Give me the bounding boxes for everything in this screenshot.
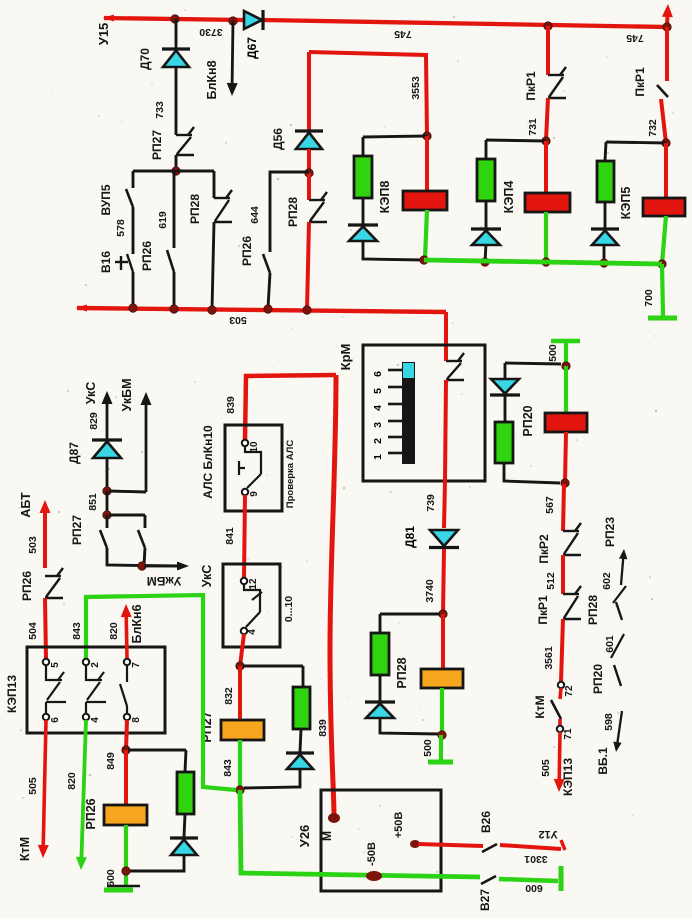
contact РП28 blade (chain) <box>616 602 622 620</box>
wire 733 <box>175 67 178 135</box>
svg-text:601: 601 <box>604 635 616 653</box>
arrow left end of bus 503 <box>76 305 87 312</box>
diode VD-РП28 <box>365 702 395 718</box>
terminal М (У26) <box>328 813 340 823</box>
svg-text:Д70: Д70 <box>138 48 152 70</box>
wire VD-РП20 to R-РП20 <box>504 396 507 422</box>
junction top bus / Д70 branch <box>171 15 179 23</box>
wire РП28 to bus 503 <box>212 222 214 310</box>
svg-text:РП26: РП26 <box>84 798 98 829</box>
wire 500 bar to node <box>564 341 568 364</box>
svg-text:БлКн8: БлКн8 <box>205 60 219 99</box>
svg-text:РП26: РП26 <box>20 571 34 601</box>
node Д56 / РП28 / РП26 junction <box>305 169 313 177</box>
resistor R-РП28 <box>371 633 389 675</box>
wire 3301 <box>500 845 561 849</box>
svg-text:ВУП5: ВУП5 <box>99 184 113 215</box>
svg-text:700: 700 <box>643 289 655 307</box>
svg-text:РП26: РП26 <box>140 241 154 271</box>
wire 500 to ground <box>439 735 443 760</box>
node green bus / VD-КЭП4 <box>481 258 489 266</box>
resistor R-РП27 <box>293 687 310 729</box>
wire top bus 745 left segment <box>104 18 243 20</box>
wire КЭП4 resistor tap <box>486 140 546 141</box>
wire 3740 <box>443 549 444 614</box>
wire Д56 to node <box>307 149 311 173</box>
wire VD-РП26 to node 600 <box>130 855 184 871</box>
svg-text:512: 512 <box>545 572 557 590</box>
wire Д87 to node 851 <box>106 458 109 491</box>
node 733/619 junction <box>172 167 180 175</box>
wire green return bus <box>424 260 662 264</box>
wire РП20 diode tap <box>505 363 561 364</box>
svg-text:КтМ: КтМ <box>533 695 547 718</box>
contact РП28 (x214) <box>214 190 232 222</box>
wire to R-КЭП4 <box>485 140 488 159</box>
contact РП27 blade (right) <box>138 530 145 548</box>
diode Д81 <box>403 526 459 548</box>
svg-text:РП20: РП20 <box>521 405 535 436</box>
wire КЭП8 coil feed (red) <box>425 136 429 191</box>
resistor R-КЭП5 <box>597 161 614 202</box>
contact РП26 blade (644 line) <box>263 254 270 273</box>
wire R-КЭП5 to diode <box>604 202 607 228</box>
svg-text:500: 500 <box>422 739 434 757</box>
svg-text:ПкР1: ПкР1 <box>633 67 647 97</box>
contact РП27 blade (left) <box>100 530 107 548</box>
svg-text:832: 832 <box>223 687 235 705</box>
svg-text:РП20: РП20 <box>591 664 605 694</box>
arrow to УжБМ (right) <box>144 562 189 571</box>
wire VD-РП28 to node 500 <box>380 717 440 734</box>
diode Д56 <box>271 128 323 150</box>
wire РП27 to node <box>175 155 178 171</box>
wire РП27 coil to node 843 <box>238 740 242 788</box>
node 732 / КЭП5 junction <box>662 139 670 147</box>
wire РП28 coil feed (red) <box>441 614 445 669</box>
terminal +50В (У26) <box>410 840 420 848</box>
wire 3553 <box>309 52 427 136</box>
wire 839 corner <box>245 375 336 440</box>
svg-text:В26: В26 <box>479 811 493 833</box>
terminal 12 (УкС) <box>241 578 247 584</box>
arrow net 820 to БлКн6 (up) <box>121 604 132 658</box>
КрМ position tick 1 <box>388 452 402 455</box>
block КЭП13 <box>27 647 165 733</box>
terminal bar net 600 end <box>559 866 564 891</box>
svg-text:4: 4 <box>90 717 101 723</box>
wire 745 to ПкР1 <box>546 26 550 75</box>
terminal 2 (КЭП13) <box>83 659 89 665</box>
svg-text:+50В: +50В <box>393 812 405 839</box>
wire node to РП28 contact (red) <box>307 173 311 200</box>
terminal bar net 500 (top) <box>551 339 580 344</box>
block АЛС БлКн10 <box>225 425 282 511</box>
contact В27 blade <box>481 876 496 884</box>
wire to R-РП28 <box>379 614 382 633</box>
node green bus / VD-КЭП5 <box>600 259 608 267</box>
node bus 503 / РП26(644) <box>264 305 272 313</box>
svg-text:М: М <box>320 831 334 841</box>
wire top bus 745 right segment <box>263 20 667 27</box>
node 3740 / РП28 junction <box>439 610 447 618</box>
svg-text:РП28: РП28 <box>586 595 600 625</box>
ground 600 <box>107 885 140 888</box>
wire 839 (АЛС to У26 М) <box>330 375 336 816</box>
wire РП28 resistor tap <box>380 613 440 616</box>
svg-text:УкС: УкС <box>200 565 214 588</box>
svg-text:5: 5 <box>372 388 384 394</box>
svg-text:УкС: УкС <box>84 382 98 405</box>
svg-text:УкБМ: УкБМ <box>120 379 134 412</box>
svg-text:РП23: РП23 <box>603 517 617 547</box>
wire РП26 to bus 503 <box>173 272 176 309</box>
svg-text:4: 4 <box>247 629 258 635</box>
svg-text:КЭП4: КЭП4 <box>502 181 516 214</box>
svg-text:600: 600 <box>105 869 117 887</box>
wire 745 to ПкР1 (right) <box>665 27 669 81</box>
wire РП26 coil to ground <box>124 825 128 886</box>
svg-text:В16: В16 <box>99 251 113 273</box>
wire КтМ to 71 <box>558 719 562 726</box>
wire КЭП8 coil to green bus <box>425 210 427 259</box>
wire node to РП26 contact (644) <box>270 172 309 252</box>
wire 832 upper <box>240 634 244 666</box>
wire VD-КЭП5 to green bus <box>603 244 606 263</box>
wire РП27 left branch lower <box>107 548 180 566</box>
node bus 503 / РП26(619) <box>170 305 178 313</box>
contact КЭП13 7-8 <box>120 665 127 714</box>
wire 843 to -50В rail <box>240 790 480 877</box>
wire РП27 left branch upper <box>106 515 109 528</box>
svg-text:У15: У15 <box>96 23 111 46</box>
svg-text:839: 839 <box>317 719 329 737</box>
svg-text:841: 841 <box>224 527 236 545</box>
relay coil КЭП4 <box>525 193 570 212</box>
node green bus / VD-КЭП8 <box>420 256 428 264</box>
wire 849 <box>126 720 127 750</box>
svg-text:745: 745 <box>394 28 412 40</box>
svg-text:3: 3 <box>372 422 384 428</box>
node 851 upper <box>103 487 111 495</box>
svg-text:602: 602 <box>601 572 613 590</box>
relay coil РП28 <box>421 669 463 688</box>
relay coil РП26 <box>104 805 147 825</box>
svg-text:745: 745 <box>626 32 644 44</box>
arrow left end of bus 745 <box>103 15 114 22</box>
svg-text:РП27: РП27 <box>150 130 164 160</box>
wire РП28 coil to ground node <box>440 688 444 734</box>
svg-text:820: 820 <box>108 622 120 640</box>
terminal 7 (КЭП13) <box>124 659 130 665</box>
relay coil КЭП8 <box>403 191 447 210</box>
terminal 4 (УкС) <box>241 628 247 634</box>
wire R-РП26 to diode <box>184 814 185 837</box>
wire 602 segment <box>613 586 626 603</box>
contact РП26 (АБТ line) <box>45 568 63 598</box>
diode Д87 <box>67 440 122 464</box>
terminal 6 (КЭП13) <box>43 714 49 720</box>
wire 619 <box>173 171 176 248</box>
diode VD-РП26 <box>170 838 198 855</box>
contact УкС switch <box>244 584 262 627</box>
terminal 71 <box>557 726 563 732</box>
svg-text:503: 503 <box>229 314 247 326</box>
contact ПкР1 blade (КЭП5 branch) <box>657 85 668 97</box>
contact ПкР1 (chain) <box>563 586 581 619</box>
wire R-РП20 to node 567 <box>504 463 560 483</box>
КрМ position tick 5 <box>388 386 402 389</box>
relay coil РП27 <box>221 720 264 740</box>
resistor R-РП20 <box>495 422 513 463</box>
svg-text:733: 733 <box>154 101 166 119</box>
ground 700 <box>648 316 677 321</box>
node 3553 / КЭП8 junction <box>423 132 431 140</box>
svg-text:3561: 3561 <box>543 646 555 670</box>
node 567 junction <box>561 479 569 487</box>
wire 3561 <box>561 619 563 682</box>
svg-text:-50В: -50В <box>366 842 378 866</box>
resistor R-КЭП8 <box>354 156 372 198</box>
svg-text:6: 6 <box>372 371 384 377</box>
relay coil КЭП5 <box>643 198 685 216</box>
wire node to РП27 right branch <box>109 514 145 517</box>
wire to R-РП27 <box>302 666 305 687</box>
svg-text:732: 732 <box>647 119 659 137</box>
wire 700 to ground <box>662 264 663 316</box>
diode VD-КЭП4 <box>471 229 501 245</box>
wire to R-КЭП8 <box>362 137 365 156</box>
contact РП20 blade (chain) <box>614 665 621 686</box>
wire through КрМ to 739 <box>444 380 446 528</box>
svg-text:851: 851 <box>87 493 99 511</box>
svg-text:500: 500 <box>547 344 559 362</box>
svg-text:КЭП13: КЭП13 <box>561 758 575 796</box>
wire РП27 right branch lower <box>144 548 145 565</box>
wire 832 to РП27 coil <box>238 666 242 720</box>
wire R-РП27 to diode <box>300 729 301 752</box>
svg-text:2: 2 <box>90 662 101 668</box>
junction top bus / КЭП5 branch <box>663 23 671 31</box>
arrow net 503 to АБТ (up) <box>40 500 51 568</box>
wire node to ВУП5 <box>132 171 135 188</box>
svg-text:У26: У26 <box>297 825 312 848</box>
arrow net to УкБМ (up) <box>141 392 152 492</box>
terminal 5 (КЭП13) <box>43 659 49 665</box>
КрМ position tick 3 <box>388 420 402 423</box>
svg-text:3553: 3553 <box>410 76 422 100</box>
svg-text:2: 2 <box>372 438 384 444</box>
svg-text:849: 849 <box>105 752 117 770</box>
wire РП27 right branch upper <box>144 515 147 528</box>
svg-text:У12: У12 <box>538 828 557 840</box>
svg-text:829: 829 <box>88 412 100 430</box>
diode VD-КЭП5 <box>591 229 619 245</box>
svg-text:3730: 3730 <box>199 26 223 38</box>
node 851 lower <box>103 511 111 519</box>
wire 841 <box>244 495 245 578</box>
svg-text:12: 12 <box>248 578 259 590</box>
svg-text:0...10: 0...10 <box>283 596 295 622</box>
svg-text:3301: 3301 <box>524 853 548 865</box>
contact В26 blade <box>482 844 497 852</box>
arrow net 598 to ВБ.1 (down) <box>613 711 622 752</box>
wire R-КЭП4 to diode <box>485 201 488 228</box>
КрМ position tick 4 <box>388 403 402 406</box>
node 843 junction <box>236 786 244 794</box>
svg-text:КрМ: КрМ <box>338 344 353 371</box>
contact ПкР1 (КЭП4 branch) <box>548 67 566 98</box>
wire 644 to bus 503 <box>268 273 270 308</box>
svg-text:843: 843 <box>222 759 234 777</box>
resistor R-КЭП4 <box>477 159 495 201</box>
wire 3730 from bus to Д70 <box>175 19 178 49</box>
svg-text:6: 6 <box>50 717 61 723</box>
КрМ position tick 6 <box>388 369 402 372</box>
svg-text:ПкР2: ПкР2 <box>537 534 551 564</box>
terminal -50В junction blob <box>366 871 382 881</box>
svg-text:Д87: Д87 <box>67 442 81 464</box>
contact РП26 blade (619 line) <box>167 250 174 272</box>
terminal 4 (КЭП13) <box>83 714 89 720</box>
svg-text:820: 820 <box>66 772 78 790</box>
svg-text:ВБ.1: ВБ.1 <box>596 747 610 775</box>
svg-text:10: 10 <box>249 441 260 453</box>
svg-text:АБТ: АБТ <box>19 492 33 518</box>
svg-text:КтМ: КтМ <box>18 837 32 861</box>
svg-text:567: 567 <box>544 496 556 514</box>
arrow up net 745 right end <box>662 4 673 27</box>
wire +50В to В26 <box>418 844 483 846</box>
terminal 8 (КЭП13) <box>124 714 130 720</box>
КрМ controller bar <box>402 362 415 464</box>
svg-text:578: 578 <box>115 219 127 237</box>
wire bus to Д56 <box>307 52 311 131</box>
contact РП28 (in red line) <box>309 192 327 222</box>
svg-text:5: 5 <box>50 662 61 668</box>
arrow net 829 to УкС (up) <box>102 391 113 439</box>
arrow net 505 to КтМ (down) <box>38 720 49 858</box>
wire 732 <box>661 99 666 143</box>
resistor R-РП26 <box>177 772 194 814</box>
arrow net 820 (down) <box>76 720 87 870</box>
svg-text:Д56: Д56 <box>271 128 285 150</box>
ground 500 (РП28) <box>428 760 453 765</box>
svg-text:505: 505 <box>540 759 552 777</box>
svg-text:РП28: РП28 <box>395 657 409 688</box>
svg-text:644: 644 <box>249 206 261 224</box>
svg-text:РП26: РП26 <box>240 236 254 266</box>
arrow net to РП23 (up) <box>619 549 627 585</box>
wire VD-КЭП4 to green bus <box>485 244 486 262</box>
node 832 junction <box>236 662 244 670</box>
svg-text:БлКн6: БлКн6 <box>130 604 144 643</box>
node 500 / РП20 junction <box>562 362 570 370</box>
contact АЛС button <box>239 446 261 488</box>
svg-text:7: 7 <box>131 662 142 668</box>
wire КЭП4 coil feed (red) <box>544 141 548 193</box>
node 731 / КЭП4 junction <box>542 137 550 145</box>
КрМ position 6 indicator <box>403 363 414 378</box>
svg-text:8: 8 <box>131 717 142 723</box>
wire РП27 resistor tap <box>243 665 303 668</box>
wire to R-РП26 <box>185 750 186 772</box>
wire 843 (КЭП13 t2 to РП27) <box>86 595 236 790</box>
svg-text:РП27: РП27 <box>70 515 84 545</box>
wire КЭП5 resistor tap <box>606 142 666 143</box>
node УжБМ junction <box>138 562 146 570</box>
junction top bus / КЭП4 branch <box>544 22 552 30</box>
svg-text:503: 503 <box>27 536 39 554</box>
node 600 junction <box>122 867 130 875</box>
wire КЭП5 coil to green bus <box>662 216 666 264</box>
contact КрМ (in red line) <box>446 353 464 380</box>
svg-text:619: 619 <box>157 211 169 229</box>
wire 849 to РП26 coil <box>124 750 128 805</box>
block У26 <box>321 790 441 891</box>
diode Д70 <box>138 48 190 70</box>
wire КЭП5 coil feed (red) <box>664 143 668 198</box>
svg-text:ПкР1: ПкР1 <box>524 71 538 101</box>
wire 504 <box>45 598 46 658</box>
wire РП26 resistor tap <box>128 749 186 752</box>
node bus 503 / РП28(red) <box>303 306 311 314</box>
contact КЭП13 2-4 <box>86 665 106 714</box>
wire node to УкБМ arrow <box>109 491 146 492</box>
svg-text:731: 731 <box>527 118 539 136</box>
svg-text:72: 72 <box>564 685 575 697</box>
svg-text:9: 9 <box>249 491 260 497</box>
wire КЭП4 coil to green bus <box>544 212 548 262</box>
svg-text:УжБМ: УжБМ <box>147 574 181 588</box>
wire КЭП8 resistor tap <box>363 136 427 137</box>
svg-text:РП28: РП28 <box>286 197 300 227</box>
КрМ position tick 2 <box>388 436 402 439</box>
svg-text:739: 739 <box>425 494 437 512</box>
svg-text:600: 600 <box>525 882 543 894</box>
arrow net 505 to КЭП13 (down) <box>554 732 565 792</box>
svg-text:3740: 3740 <box>424 579 436 603</box>
block УкС <box>223 564 280 647</box>
node green bus end <box>658 260 666 268</box>
wire node to РП28 <box>213 171 216 198</box>
wire VD-РП27 to node 843 <box>244 768 300 788</box>
svg-text:839: 839 <box>225 396 237 414</box>
junction top bus / БлКн8 branch <box>229 17 237 25</box>
diode VD-РП20 <box>490 379 520 395</box>
wire 601 segment <box>611 634 624 658</box>
wire bus 503 down to КрМ <box>444 312 448 361</box>
diode VD-КЭП8 <box>348 225 378 241</box>
terminal 9 (АЛС) <box>242 489 248 495</box>
wire horizontal distribution node <box>133 170 214 173</box>
svg-text:Д81: Д81 <box>403 526 417 548</box>
contact КтМ blade <box>551 700 561 719</box>
node 849 junction <box>122 746 130 754</box>
contact ПкР2 <box>563 523 581 555</box>
svg-text:В27: В27 <box>478 889 492 911</box>
svg-text:4: 4 <box>372 405 384 411</box>
svg-text:71: 71 <box>563 728 574 740</box>
svg-text:843: 843 <box>71 622 83 640</box>
svg-text:1: 1 <box>372 454 384 460</box>
svg-text:КЭП5: КЭП5 <box>619 187 633 220</box>
wire 731 <box>546 98 548 141</box>
diode VD-РП27 <box>286 753 314 769</box>
wire to R-КЭП5 <box>605 142 606 161</box>
svg-text:КЭП13: КЭП13 <box>5 675 19 713</box>
svg-text:Д67: Д67 <box>245 37 259 59</box>
